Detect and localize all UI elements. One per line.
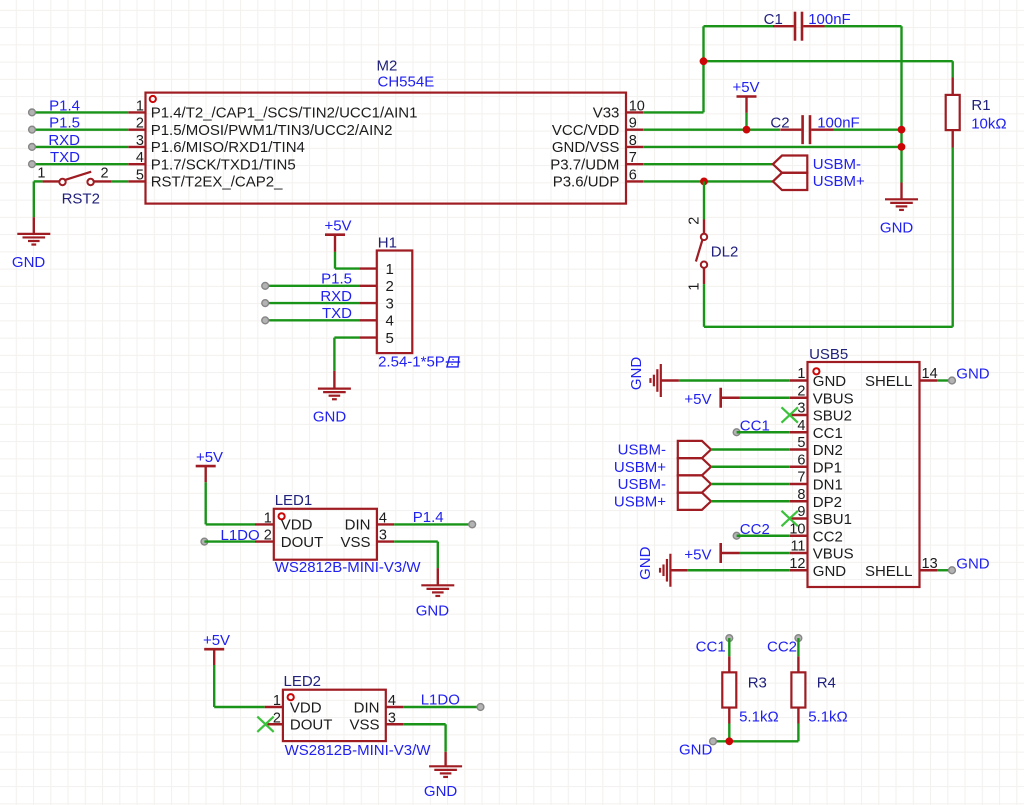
- svg-text:3: 3: [797, 401, 805, 417]
- svg-text:DIN: DIN: [354, 699, 380, 716]
- svg-text:DIN: DIN: [345, 517, 371, 534]
- svg-text:WS2812B-MINI-V3/W: WS2812B-MINI-V3/W: [275, 559, 422, 576]
- svg-text:10: 10: [789, 521, 805, 537]
- svg-text:RXD: RXD: [48, 132, 80, 149]
- svg-text:USBM+: USBM+: [614, 493, 666, 510]
- svg-text:5: 5: [797, 435, 805, 451]
- svg-text:RST/T2EX_/CAP2_: RST/T2EX_/CAP2_: [151, 174, 283, 191]
- svg-text:VDD: VDD: [290, 699, 322, 716]
- svg-text:2: 2: [136, 116, 144, 132]
- svg-text:11: 11: [790, 539, 805, 555]
- svg-text:USBM-: USBM-: [618, 442, 666, 459]
- svg-text:8: 8: [797, 487, 805, 503]
- svg-text:100nF: 100nF: [817, 115, 860, 132]
- svg-text:DN1: DN1: [813, 477, 843, 494]
- svg-text:P1.7/SCK/TXD1/TIN5: P1.7/SCK/TXD1/TIN5: [151, 156, 296, 173]
- svg-text:P1.4/T2_/CAP1_/SCS/TIN2/UCC1/A: P1.4/T2_/CAP1_/SCS/TIN2/UCC1/AIN1: [151, 105, 418, 122]
- svg-text:DP2: DP2: [813, 494, 842, 511]
- svg-text:1: 1: [264, 510, 272, 526]
- svg-text:+5V: +5V: [684, 391, 711, 408]
- svg-text:P1.4: P1.4: [413, 509, 444, 526]
- svg-text:6: 6: [797, 452, 805, 468]
- svg-text:GND/VSS: GND/VSS: [552, 139, 620, 156]
- svg-text:13: 13: [922, 556, 938, 572]
- svg-text:100nF: 100nF: [808, 11, 851, 28]
- svg-text:+5V: +5V: [684, 546, 711, 563]
- svg-text:SBU1: SBU1: [813, 511, 852, 528]
- svg-text:14: 14: [922, 366, 938, 382]
- svg-text:M2: M2: [377, 57, 398, 74]
- svg-text:GND: GND: [12, 254, 46, 271]
- svg-text:10: 10: [629, 98, 645, 114]
- svg-text:TXD: TXD: [50, 149, 80, 166]
- svg-text:2: 2: [101, 166, 109, 182]
- svg-text:VSS: VSS: [340, 534, 370, 551]
- svg-text:8: 8: [629, 133, 637, 149]
- svg-text:GND: GND: [628, 357, 645, 391]
- svg-text:1: 1: [37, 166, 45, 182]
- svg-text:CC1: CC1: [740, 417, 770, 434]
- svg-text:1: 1: [687, 283, 703, 291]
- svg-text:P3.6/UDP: P3.6/UDP: [553, 174, 620, 191]
- svg-text:L1DO: L1DO: [221, 527, 260, 544]
- svg-text:2: 2: [264, 528, 272, 544]
- svg-text:C2: C2: [770, 115, 789, 132]
- svg-text:6: 6: [629, 167, 637, 183]
- svg-text:9: 9: [797, 504, 805, 520]
- svg-text:P1.6/MISO/RXD1/TIN4: P1.6/MISO/RXD1/TIN4: [151, 139, 305, 156]
- svg-text:RXD: RXD: [320, 288, 352, 305]
- svg-text:RST2: RST2: [62, 191, 100, 208]
- svg-text:+5V: +5V: [324, 218, 351, 235]
- svg-text:5: 5: [386, 330, 394, 347]
- svg-text:GND: GND: [679, 742, 713, 759]
- svg-text:GND: GND: [956, 366, 990, 383]
- svg-text:3: 3: [388, 710, 396, 726]
- svg-text:5.1kΩ: 5.1kΩ: [739, 709, 779, 726]
- svg-text:GND: GND: [313, 409, 347, 426]
- svg-text:7: 7: [797, 470, 805, 486]
- svg-text:+5V: +5V: [203, 632, 230, 649]
- svg-text:1: 1: [797, 366, 805, 382]
- svg-text:R4: R4: [817, 674, 836, 691]
- svg-text:LED1: LED1: [275, 492, 313, 509]
- svg-text:3: 3: [379, 528, 387, 544]
- svg-text:GND: GND: [416, 603, 450, 620]
- svg-text:4: 4: [388, 693, 396, 709]
- svg-text:1: 1: [136, 98, 144, 114]
- svg-text:P1.5: P1.5: [49, 115, 80, 132]
- svg-text:P1.5: P1.5: [321, 271, 352, 288]
- svg-text:DP1: DP1: [813, 459, 842, 476]
- svg-text:GND: GND: [813, 563, 847, 580]
- svg-text:GND: GND: [637, 546, 654, 580]
- svg-text:VSS: VSS: [349, 717, 379, 734]
- svg-text:2: 2: [386, 278, 394, 295]
- svg-text:VDD: VDD: [281, 517, 313, 534]
- svg-text:CC1: CC1: [696, 639, 726, 656]
- svg-text:3: 3: [136, 133, 144, 149]
- svg-text:DOUT: DOUT: [290, 717, 333, 734]
- svg-text:CH554E: CH554E: [378, 73, 435, 90]
- svg-text:L1DO: L1DO: [421, 692, 460, 709]
- svg-text:CC1: CC1: [813, 425, 843, 442]
- svg-text:VBUS: VBUS: [813, 390, 854, 407]
- svg-text:10kΩ: 10kΩ: [971, 116, 1006, 133]
- svg-text:R1: R1: [971, 97, 990, 114]
- svg-text:2: 2: [797, 383, 805, 399]
- svg-text:P1.5/MOSI/PWM1/TIN3/UCC2/AIN2: P1.5/MOSI/PWM1/TIN3/UCC2/AIN2: [151, 122, 393, 139]
- svg-text:TXD: TXD: [322, 305, 352, 322]
- svg-text:C1: C1: [764, 11, 783, 28]
- svg-text:VBUS: VBUS: [813, 546, 854, 563]
- svg-text:4: 4: [379, 510, 387, 526]
- svg-text:12: 12: [789, 556, 805, 572]
- svg-text:+5V: +5V: [732, 79, 759, 96]
- svg-text:GND: GND: [424, 783, 458, 800]
- svg-text:USBM+: USBM+: [813, 173, 865, 190]
- svg-text:VCC/VDD: VCC/VDD: [552, 122, 620, 139]
- svg-text:2.54-1*5P: 2.54-1*5P: [378, 354, 445, 371]
- svg-text:4: 4: [386, 313, 394, 330]
- svg-text:WS2812B-MINI-V3/W: WS2812B-MINI-V3/W: [285, 742, 432, 759]
- svg-text:CC2: CC2: [767, 639, 797, 656]
- svg-text:CC2: CC2: [813, 528, 843, 545]
- svg-text:4: 4: [136, 150, 144, 166]
- svg-text:DL2: DL2: [711, 243, 739, 260]
- svg-text:R3: R3: [748, 674, 767, 691]
- svg-text:5.1kΩ: 5.1kΩ: [808, 709, 848, 726]
- svg-text:GND: GND: [813, 373, 847, 390]
- svg-text:1: 1: [386, 261, 394, 278]
- svg-text:GND: GND: [956, 555, 990, 572]
- svg-text:USBM-: USBM-: [813, 156, 861, 173]
- svg-text:2: 2: [687, 217, 703, 225]
- svg-text:1: 1: [273, 693, 281, 709]
- svg-text:USB5: USB5: [809, 346, 848, 363]
- svg-text:CC2: CC2: [740, 521, 770, 538]
- svg-text:SHELL: SHELL: [865, 373, 913, 390]
- svg-text:3: 3: [386, 295, 394, 312]
- svg-text:9: 9: [629, 116, 637, 132]
- svg-text:4: 4: [797, 418, 805, 434]
- svg-text:USBM-: USBM-: [618, 476, 666, 493]
- svg-text:DN2: DN2: [813, 442, 843, 459]
- svg-text:2: 2: [273, 710, 281, 726]
- svg-text:SBU2: SBU2: [813, 408, 852, 425]
- svg-text:+5V: +5V: [196, 449, 223, 466]
- svg-text:GND: GND: [880, 219, 914, 236]
- svg-text:5: 5: [136, 167, 144, 183]
- svg-text:DOUT: DOUT: [281, 534, 324, 551]
- svg-text:SHELL: SHELL: [865, 563, 913, 580]
- svg-text:H1: H1: [378, 235, 397, 252]
- svg-text:LED2: LED2: [284, 673, 322, 690]
- svg-text:V33: V33: [593, 105, 620, 122]
- svg-text:USBM+: USBM+: [614, 459, 666, 476]
- svg-text:7: 7: [629, 150, 637, 166]
- svg-text:P3.7/UDM: P3.7/UDM: [550, 156, 619, 173]
- svg-text:P1.4: P1.4: [49, 97, 80, 114]
